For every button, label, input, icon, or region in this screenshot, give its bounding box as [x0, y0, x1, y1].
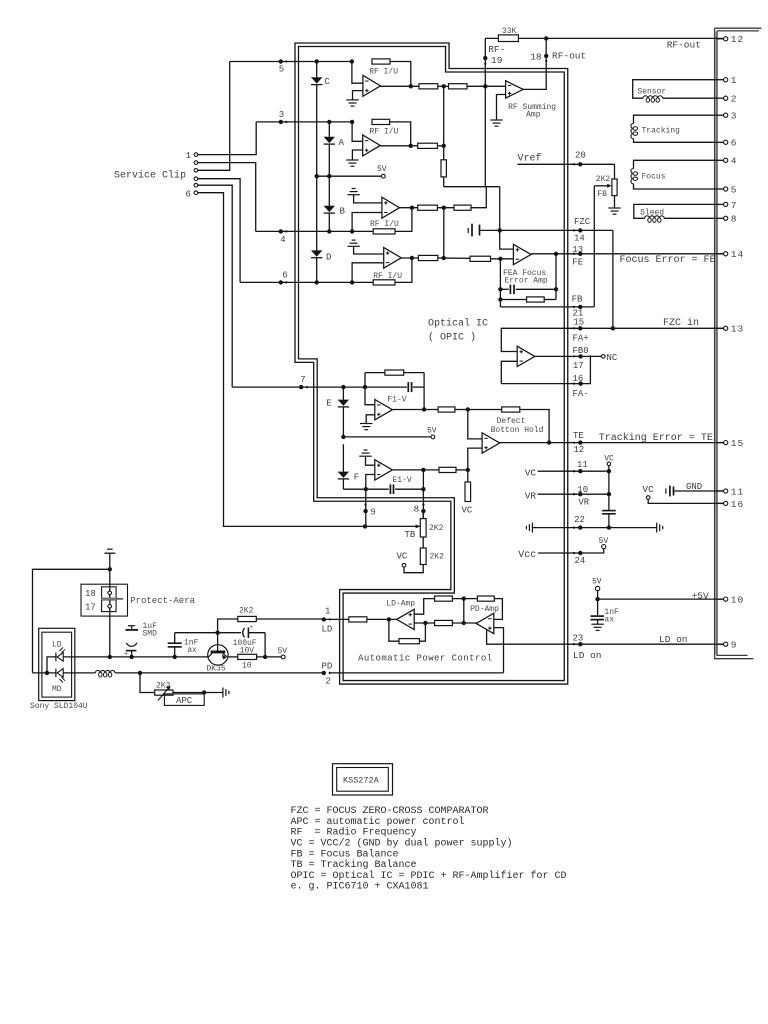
ground right of APC — [222, 688, 224, 698]
svg-text:F1-V: F1-V — [387, 396, 406, 405]
svg-text:LD-Amp: LD-Amp — [386, 600, 415, 609]
input resistor to FEA — [470, 256, 491, 261]
capacitor VC filter — [602, 510, 616, 512]
svg-text:2K2: 2K2 — [596, 175, 611, 184]
svg-text:VC: VC — [462, 506, 473, 516]
ground of RF I/U #1 — [346, 99, 358, 101]
ground of RF I/U #4 — [352, 239, 356, 241]
connector pin 6 — [717, 141, 724, 143]
svg-text:RF I/U: RF I/U — [370, 220, 399, 229]
svg-text:PD: PD — [322, 662, 333, 672]
wire to summing node — [437, 145, 443, 147]
photodiode E — [338, 400, 349, 406]
svg-text:18: 18 — [530, 51, 542, 62]
service clip contact 6 — [194, 191, 198, 195]
svg-text:FB = Focus Balance: FB = Focus Balance — [291, 848, 399, 860]
svg-text:F: F — [354, 472, 359, 482]
op-amp PD-Amp — [476, 613, 494, 634]
capacitor E1-V feedback — [389, 484, 391, 494]
feedback resistor RF I/U #2 — [372, 119, 390, 124]
svg-text:Optical IC: Optical IC — [428, 318, 488, 330]
FZC in line to pin 13 — [501, 328, 723, 351]
svg-text:RF I/U: RF I/U — [373, 272, 402, 281]
svg-text:SMD: SMD — [143, 630, 158, 639]
wire to defect + node — [456, 469, 468, 471]
svg-text:FB: FB — [597, 190, 607, 199]
wire to VC terminal — [404, 565, 423, 573]
wire 1nF to base line — [175, 632, 218, 634]
svg-text:LD on: LD on — [573, 650, 602, 661]
summing resistor R4a — [418, 255, 437, 260]
PD line pin 2 — [330, 672, 503, 674]
svg-text:Sony SLD104U: Sony SLD104U — [30, 702, 88, 711]
connector pin 16 — [717, 502, 724, 504]
protect contact 17 square — [102, 600, 117, 612]
feedback right vertical E1-V / pin 8 net — [422, 470, 424, 519]
resistor 10 — [228, 656, 238, 658]
transistor DK35 — [208, 645, 228, 665]
svg-text:RF I/U: RF I/U — [370, 127, 399, 136]
wire summing node horizontal — [444, 186, 500, 188]
resistor 33K — [498, 35, 518, 42]
svg-text:13: 13 — [572, 245, 583, 255]
output wire E1-V — [392, 469, 439, 471]
feedback right vertical F1-V — [423, 373, 425, 410]
svg-text:ax: ax — [187, 646, 197, 655]
svg-text:15: 15 — [731, 438, 744, 449]
monitor diode MD — [57, 669, 63, 678]
ground of F1-V — [360, 423, 372, 425]
svg-text:FB: FB — [572, 295, 583, 305]
VC terminal above — [608, 466, 610, 471]
svg-text:16: 16 — [731, 499, 744, 510]
TE output line to pin 15 — [500, 442, 724, 444]
VC terminal to pin 16 — [646, 496, 650, 500]
op-amp LD-Amp — [397, 609, 415, 629]
pin 9 net vertical — [365, 489, 367, 526]
output wire amp2 — [380, 145, 417, 147]
feedback resistor RF I/U #3 (on node 4 line) — [373, 229, 395, 234]
svg-text:18: 18 — [85, 589, 96, 599]
+5V line to pin 10 — [597, 591, 599, 599]
svg-text:17: 17 — [85, 603, 96, 613]
svg-text:Error Amp: Error Amp — [505, 277, 548, 286]
svg-text:Sleed: Sleed — [640, 209, 664, 218]
ground of RF I/U #3 — [352, 188, 356, 190]
photodiode F — [338, 472, 349, 478]
svg-text:5V: 5V — [592, 577, 602, 586]
ground right of line 22 — [656, 523, 658, 533]
svg-text:OPIC = Optical IC = PDIC + RF-: OPIC = Optical IC = PDIC + RF-Amplifier … — [291, 870, 567, 882]
inductor on MD line — [95, 670, 115, 672]
laser diode LD — [57, 653, 63, 662]
svg-text:6: 6 — [282, 271, 287, 281]
svg-text:e. g. PIC6710 + CXA1081: e. g. PIC6710 + CXA1081 — [291, 882, 429, 893]
svg-text:12: 12 — [573, 445, 584, 455]
svg-text:NC: NC — [607, 353, 618, 363]
svg-text:22: 22 — [574, 515, 585, 525]
service clip contact 1 — [194, 153, 198, 157]
svg-text:4: 4 — [280, 235, 285, 245]
svg-text:( OPIC ): ( OPIC ) — [428, 332, 476, 344]
svg-text:C: C — [325, 77, 331, 87]
FZC line (IC pin 14) — [480, 229, 613, 231]
connector pin 15 — [717, 442, 724, 444]
svg-text:10: 10 — [577, 485, 588, 495]
svg-text:11: 11 — [731, 486, 744, 497]
svg-text:FA+: FA+ — [573, 333, 589, 343]
capacitor 1nF ax — [597, 599, 599, 615]
svg-text:DK35: DK35 — [207, 665, 226, 674]
output wire amp4 — [401, 257, 418, 259]
wire PD-Amp non-inverting to PD line — [494, 628, 504, 673]
MD wire — [33, 672, 56, 674]
wire to ground — [614, 196, 616, 208]
photodiode chain C/D vertical — [316, 62, 318, 78]
FEA feedback resistor branch — [500, 299, 526, 301]
svg-text:FZC = FOCUS ZERO-CROSS COMPARA: FZC = FOCUS ZERO-CROSS COMPARATOR — [291, 806, 489, 817]
svg-text:FZC in: FZC in — [663, 317, 699, 329]
wire base node up to 2K2 — [218, 619, 238, 633]
svg-text:5V: 5V — [278, 647, 288, 656]
svg-text:RF-out: RF-out — [667, 39, 701, 50]
svg-text:LD: LD — [322, 625, 333, 635]
wire feedback to output #4 — [395, 258, 412, 282]
ground of E1-V — [364, 449, 368, 451]
service clip contact 4 — [194, 177, 198, 181]
feedback resistor RF I/U #4 (on node 6 line) — [373, 280, 395, 285]
svg-text:13: 13 — [731, 324, 744, 335]
svg-text:RF = Radio Frequency: RF = Radio Frequency — [291, 827, 417, 839]
svg-text:VC = VCC/2 (GND by dual power: VC = VCC/2 (GND by dual power supply) — [291, 838, 513, 850]
svg-text:11: 11 — [577, 460, 588, 470]
component Tracking — [634, 115, 717, 123]
wire LD cathode down to MD line — [47, 657, 56, 673]
wire RF- vertical — [484, 38, 486, 186]
op-amp FEA Focus Error Amp — [513, 244, 531, 264]
resistor Rb — [477, 596, 494, 601]
svg-text:3: 3 — [279, 110, 284, 120]
svg-text:5V: 5V — [377, 165, 387, 174]
resistor 2K2 lower — [420, 548, 426, 565]
resistor Rc to PD-Amp output — [435, 620, 453, 625]
wire feedback to output #3 — [395, 208, 412, 232]
wire to FEA inverting input — [491, 258, 514, 260]
service clip contact 2 — [194, 161, 198, 165]
svg-text:TE: TE — [573, 431, 584, 441]
wire FA- to inverting input — [501, 361, 517, 383]
svg-text:5V: 5V — [427, 426, 437, 435]
photodiode C — [311, 77, 322, 83]
svg-text:Tracking: Tracking — [642, 127, 681, 136]
service clip contact 3 — [194, 169, 198, 173]
wire between resistors — [422, 537, 424, 548]
capacitor 1nF ax left — [168, 642, 182, 644]
VC/VR filter vertical — [608, 471, 610, 510]
connector pin 3 — [717, 114, 724, 116]
summing resistor R2a — [418, 143, 438, 148]
svg-text:Automatic Power Control: Automatic Power Control — [358, 654, 493, 664]
svg-text:LD on: LD on — [659, 634, 688, 645]
svg-text:1: 1 — [186, 151, 191, 161]
LD line pin 1 input — [324, 618, 349, 620]
svg-text:MD: MD — [52, 685, 62, 694]
VC pull resistor below E1-V out — [467, 470, 469, 482]
svg-text:1: 1 — [325, 606, 330, 616]
pin 22 ground line — [525, 526, 527, 529]
svg-text:Tracking Error = TE: Tracking Error = TE — [599, 432, 713, 444]
op-amp RF I/U #4 — [354, 246, 384, 254]
FB0 output line / NC — [535, 355, 602, 357]
junction TB line / node 9 — [363, 524, 367, 528]
LD on line pin 23 to pin 9 — [487, 630, 724, 645]
svg-text:PD-Amp: PD-Amp — [470, 605, 499, 614]
photodiode A — [324, 137, 335, 143]
LD-Amp non-inverting to divider — [414, 599, 434, 615]
wire node to FEA + — [500, 187, 514, 249]
output wire amp3 — [400, 207, 418, 209]
svg-text:Service Clip: Service Clip — [114, 170, 186, 182]
resistor 2K2 focus bias — [612, 179, 617, 196]
summing resistor R1b — [449, 84, 468, 89]
svg-text:VC: VC — [525, 468, 537, 479]
OPIC IC boundary outline — [297, 45, 566, 683]
ground below 2K2 — [608, 207, 620, 209]
resistor 2K2 LD drive — [238, 616, 256, 621]
svg-text:7: 7 — [731, 200, 738, 211]
FEA feedback cap branch — [555, 254, 557, 300]
svg-text:+: + — [124, 651, 128, 659]
op-amp RF I/U #3 — [354, 195, 382, 203]
svg-text:FZC: FZC — [574, 217, 591, 227]
protect bar — [101, 598, 116, 601]
potentiometer 2K2 APC — [140, 673, 155, 693]
svg-text:Vcc: Vcc — [518, 550, 536, 561]
op-amp FZC comparator — [517, 346, 535, 366]
5V terminal — [595, 586, 599, 590]
connector pin 11 — [717, 490, 724, 492]
svg-text:VR: VR — [525, 490, 537, 501]
op-amp F1-V — [365, 387, 375, 405]
capacitor FEA feedback — [509, 285, 511, 295]
svg-text:FB0: FB0 — [573, 346, 589, 356]
wire — [438, 257, 470, 259]
resistor LD input — [349, 617, 367, 622]
svg-text:5: 5 — [731, 184, 738, 195]
output wire amp1 — [381, 85, 420, 87]
svg-text:23: 23 — [573, 634, 584, 644]
FE output line to pin 14 — [531, 253, 724, 255]
svg-text:VC: VC — [604, 455, 614, 464]
svg-text:Amp: Amp — [526, 111, 541, 120]
svg-text:KSS272A: KSS272A — [343, 776, 380, 786]
wire to RF summing input — [467, 85, 506, 87]
LD-Amp feedback — [389, 619, 399, 641]
svg-text:E: E — [326, 399, 331, 409]
svg-text:14: 14 — [574, 234, 585, 244]
potentiometer TB 2K2 — [422, 511, 424, 518]
TB wiper arrowhead — [416, 524, 421, 528]
svg-text:RF-out: RF-out — [552, 51, 586, 62]
svg-text:GND: GND — [686, 482, 702, 492]
svg-text:RF-: RF- — [488, 44, 505, 55]
svg-text:15: 15 — [573, 317, 584, 327]
ground of RF I/U #2 — [346, 159, 358, 161]
wire up to join node — [471, 187, 486, 208]
svg-text:FA-: FA- — [573, 389, 589, 399]
svg-text:5V: 5V — [599, 537, 609, 546]
component Sensor — [633, 80, 717, 99]
svg-text:+: + — [249, 624, 253, 631]
svg-text:Vref: Vref — [518, 153, 542, 165]
wire service pin2 to node 4 line — [198, 163, 256, 232]
svg-text:4: 4 — [731, 156, 738, 167]
svg-text:6: 6 — [186, 189, 191, 199]
photodiode chain A/B vertical — [328, 122, 330, 137]
wire service pin5 to node 7 line — [198, 185, 233, 387]
wire LD anode loop left — [33, 569, 110, 673]
resistor Ra — [435, 596, 453, 601]
capacitor F1-V feedback — [407, 382, 409, 392]
svg-text:B: B — [340, 207, 346, 217]
series resistor F1-V out — [438, 407, 455, 412]
capacitor 1uF SMD — [128, 625, 135, 627]
connector pin 10 — [717, 598, 724, 600]
svg-text:Sensor: Sensor — [637, 87, 666, 96]
svg-text:6: 6 — [731, 138, 738, 149]
node 3 line (pin 3 input) — [256, 121, 352, 123]
divider vertical — [463, 599, 465, 623]
protect contact circles — [108, 591, 112, 595]
svg-text:20: 20 — [575, 150, 586, 160]
FB wiper arrow — [594, 185, 609, 187]
wire ground to LD line — [109, 553, 111, 657]
connector pin 12 — [717, 38, 724, 40]
wire service pin4 to node 6 line — [198, 179, 240, 283]
svg-text:RF I/U: RF I/U — [369, 68, 398, 77]
svg-text:Defect: Defect — [497, 417, 526, 426]
ground below 1nF — [597, 620, 599, 624]
capacitor 100uF 10V — [218, 632, 241, 634]
op-amp E1-V — [366, 456, 375, 465]
summing vertical resistor — [443, 146, 445, 160]
svg-text:10: 10 — [731, 595, 744, 606]
KSS272A pickup box — [333, 764, 393, 795]
connector pin 14 — [717, 253, 724, 255]
node 4 line (pin 4 input) — [256, 230, 374, 232]
svg-text:APC: APC — [176, 696, 193, 706]
connector pin 7 — [717, 203, 724, 205]
feedback left vertical F1-V — [364, 373, 366, 388]
wire Vref down to 2K2 — [614, 164, 616, 179]
svg-text:33K: 33K — [502, 27, 517, 36]
summing resistor R1a — [419, 84, 438, 89]
wire rows 3-4 vertical — [443, 208, 445, 258]
FB line to pin 21 — [500, 306, 594, 308]
svg-text:5: 5 — [279, 65, 284, 75]
FEA inverting node vertical — [499, 259, 501, 307]
wire service pin3 to node 5 line — [198, 62, 230, 171]
svg-text:14: 14 — [731, 249, 744, 260]
FB net vertical — [593, 186, 595, 307]
wire to defect node — [455, 409, 468, 411]
wire Rb to PD-Amp inverting — [494, 599, 503, 620]
op-amp Defect Botton Hold — [468, 410, 482, 439]
svg-text:2K2: 2K2 — [430, 553, 445, 562]
feedback resistor RF I/U #1 — [372, 59, 390, 64]
svg-text:Focus: Focus — [642, 172, 666, 181]
comparator feedback to FA- — [501, 356, 590, 383]
LD-Amp inverting wire — [414, 622, 434, 624]
op-amp RF I/U #1 — [352, 62, 363, 84]
LD wire — [63, 656, 208, 658]
wire feedback to output #1 — [390, 62, 411, 87]
svg-text:19: 19 — [491, 55, 503, 66]
svg-text:1: 1 — [731, 75, 738, 86]
svg-text:LD: LD — [52, 641, 62, 650]
node 7 line (pin 7 input) — [232, 386, 407, 388]
connector pin 1 — [717, 79, 724, 81]
svg-text:9: 9 — [731, 640, 738, 651]
svg-text:Botton Hold: Botton Hold — [491, 426, 544, 435]
svg-text:12: 12 — [731, 34, 744, 45]
connector pin 2 — [717, 97, 724, 99]
summing resistor R3b — [454, 205, 471, 210]
APC box — [164, 694, 204, 706]
wire summing rows 1-2 vertical — [443, 86, 445, 146]
wire feedback to output #2 — [390, 122, 411, 146]
svg-text:16: 16 — [573, 374, 584, 384]
service clip contact 5 — [194, 183, 198, 187]
svg-text:VR: VR — [578, 498, 589, 508]
svg-text:2: 2 — [731, 94, 738, 105]
wire to 5V terminal — [257, 656, 282, 658]
svg-text:7: 7 — [300, 375, 305, 385]
ground of RF summing amp — [490, 119, 502, 121]
wire service pin6 to TB line — [198, 193, 420, 527]
svg-text:17: 17 — [573, 361, 584, 371]
connector pin 9 — [717, 643, 724, 645]
svg-text:APC = automatic power control: APC = automatic power control — [291, 816, 465, 828]
node 5 line (pin 5 input) — [230, 61, 352, 63]
svg-text:24: 24 — [575, 556, 586, 566]
op-amp RF Summing Amp — [506, 81, 524, 98]
svg-text:10: 10 — [242, 662, 252, 671]
svg-text:ax: ax — [604, 616, 614, 625]
svg-text:VC: VC — [397, 552, 408, 562]
connector pin 5 — [717, 188, 724, 190]
svg-text:TB = Tracking Balance: TB = Tracking Balance — [291, 859, 417, 871]
svg-text:Focus Error = FE: Focus Error = FE — [620, 255, 716, 266]
Sony SLD104U package box — [39, 628, 75, 700]
svg-text:8: 8 — [731, 214, 738, 225]
RF-out line — [485, 37, 723, 39]
capacitor FZC coupling — [467, 228, 469, 233]
GND capacitor to pin 11 — [665, 489, 667, 494]
connector bus (right edge) — [715, 28, 754, 659]
svg-text:3: 3 — [731, 111, 738, 122]
svg-text:8: 8 — [414, 505, 419, 515]
series resistor E1-V out — [439, 467, 456, 472]
output wire F1-V — [392, 409, 438, 411]
feedback resistor defect hold — [468, 409, 502, 411]
DK35 base wire — [217, 633, 219, 651]
feedback line E1-V with cap — [343, 488, 388, 490]
photodiode chain E/F vertical — [342, 387, 344, 400]
ground top of LD section — [107, 548, 113, 550]
svg-text:VC: VC — [642, 484, 654, 495]
Protect-Aera box — [81, 584, 128, 616]
